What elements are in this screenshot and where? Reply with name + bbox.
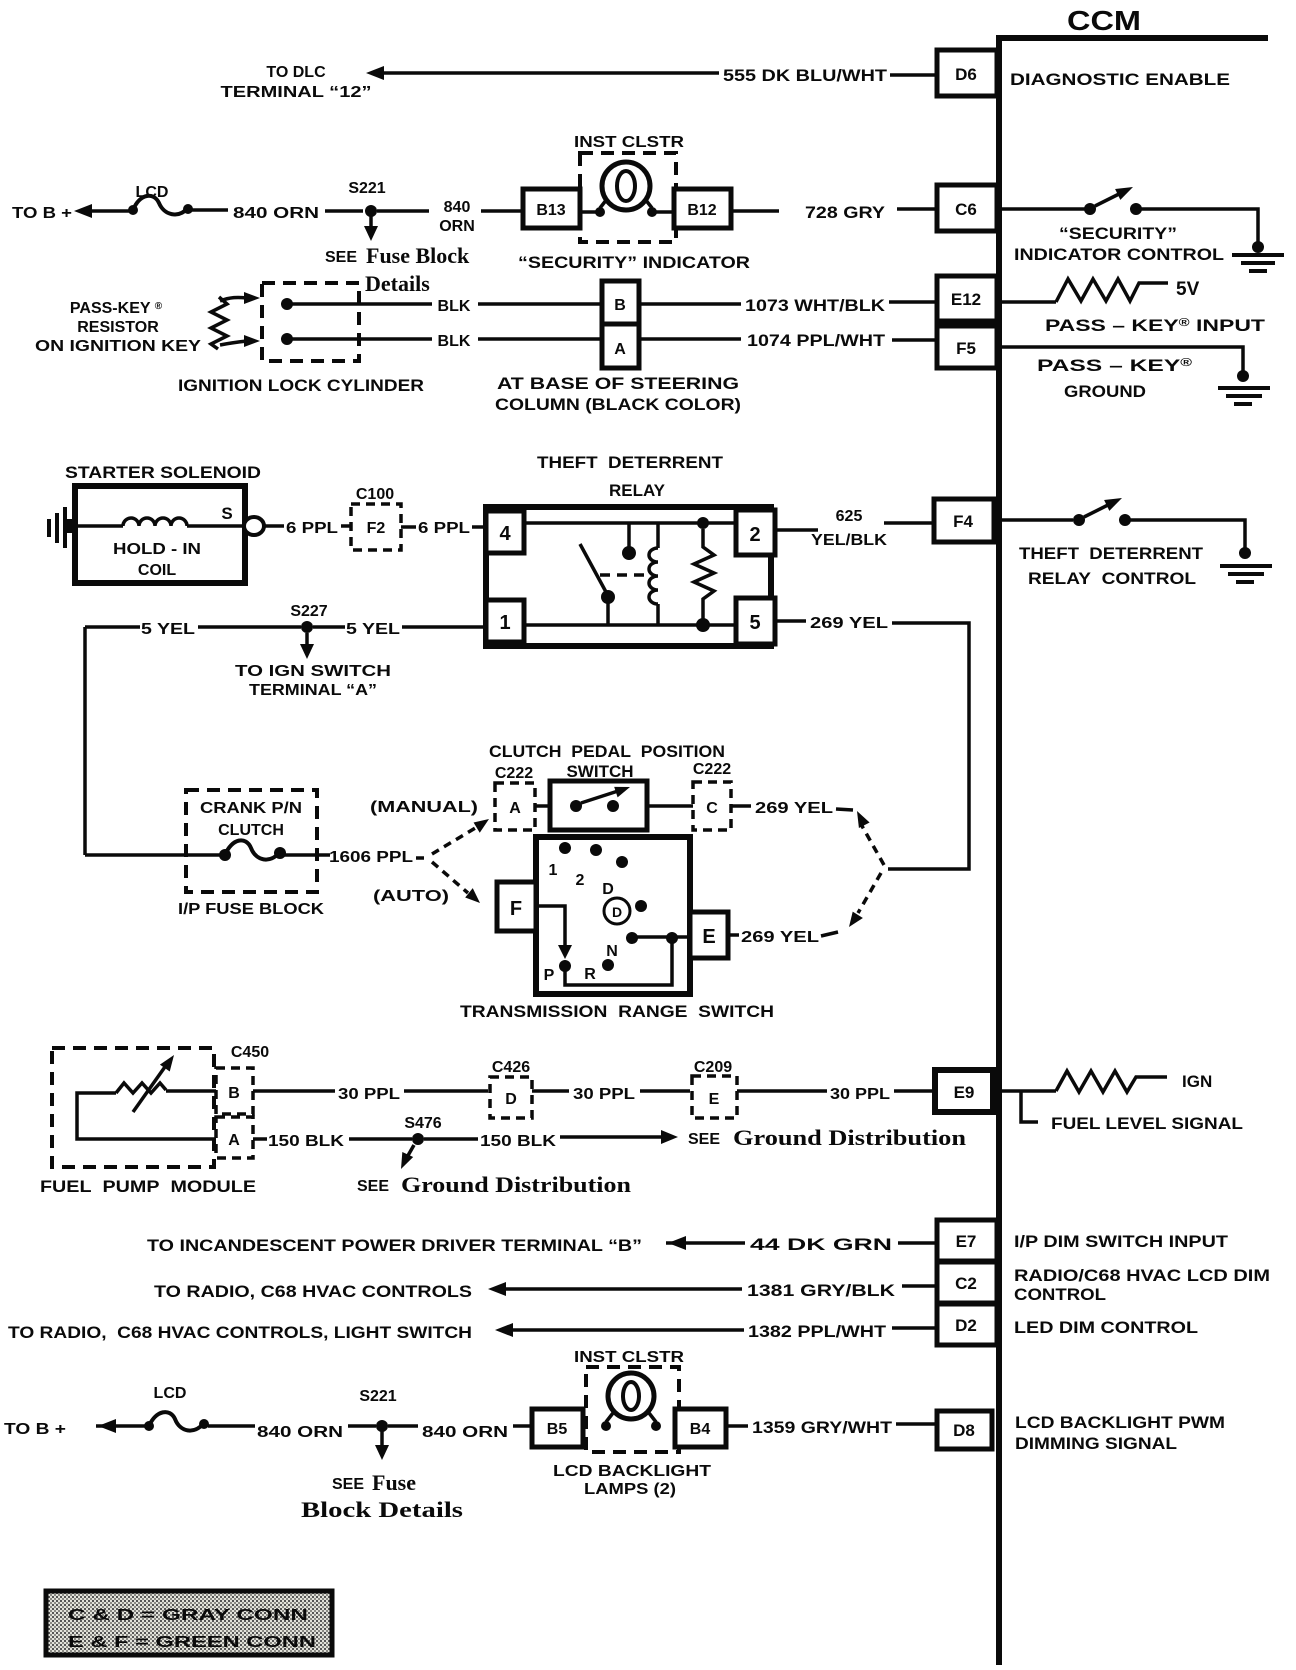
svg-text:RADIO/C68 HVAC LCD DIM: RADIO/C68 HVAC LCD DIM: [1014, 1266, 1270, 1285]
svg-text:44 DK GRN: 44 DK GRN: [750, 1235, 892, 1254]
svg-text:2: 2: [576, 872, 585, 889]
svg-text:269 YEL: 269 YEL: [741, 929, 819, 946]
svg-text:840: 840: [444, 199, 471, 216]
svg-text:B5: B5: [547, 1421, 568, 1438]
svg-text:30 PPL: 30 PPL: [573, 1086, 635, 1103]
svg-text:D6: D6: [955, 65, 977, 84]
svg-text:TO RADIO, C68 HVAC CONTROLS,: TO RADIO, C68 HVAC CONTROLS, LIGHT SWITC…: [8, 1323, 472, 1342]
svg-text:5: 5: [749, 612, 760, 634]
svg-text:DIAGNOSTIC ENABLE: DIAGNOSTIC ENABLE: [1010, 70, 1230, 89]
svg-text:CRANK P/N: CRANK P/N: [200, 800, 302, 817]
svg-text:Details: Details: [365, 271, 430, 296]
svg-text:RELAY CONTROL: RELAY CONTROL: [1028, 569, 1196, 588]
svg-text:625: 625: [836, 508, 863, 525]
svg-text:SEE: SEE: [332, 1476, 364, 1493]
svg-text:(MANUAL): (MANUAL): [370, 799, 478, 816]
svg-text:THEFT DETERRENT: THEFT DETERRENT: [1019, 544, 1204, 563]
svg-text:A: A: [228, 1132, 240, 1149]
svg-text:TO RADIO, C68 HVAC CONTROLS: TO RADIO, C68 HVAC CONTROLS: [154, 1282, 472, 1301]
svg-text:E12: E12: [951, 290, 981, 309]
svg-text:I/P FUSE BLOCK: I/P FUSE BLOCK: [178, 901, 325, 918]
svg-text:E9: E9: [954, 1083, 975, 1102]
svg-text:COIL: COIL: [138, 562, 176, 579]
svg-text:PASS – KEY®: PASS – KEY®: [1037, 356, 1192, 375]
svg-text:N: N: [606, 943, 618, 960]
svg-text:FUEL LEVEL SIGNAL: FUEL LEVEL SIGNAL: [1051, 1114, 1243, 1133]
svg-text:INDICATOR CONTROL: INDICATOR CONTROL: [1014, 245, 1224, 264]
svg-text:TO INCANDESCENT POWER DRIVER T: TO INCANDESCENT POWER DRIVER TERMINAL “B…: [147, 1236, 642, 1255]
svg-text:B12: B12: [687, 202, 716, 219]
svg-text:5V: 5V: [1176, 279, 1200, 300]
svg-text:B13: B13: [536, 202, 565, 219]
svg-text:LCD: LCD: [154, 1385, 187, 1402]
svg-text:Fuse Block: Fuse Block: [366, 243, 470, 268]
svg-text:TO B +: TO B +: [12, 205, 72, 222]
svg-text:Ground Distribution: Ground Distribution: [733, 1125, 966, 1150]
svg-text:F2: F2: [367, 520, 386, 537]
svg-text:CLUTCH: CLUTCH: [218, 822, 284, 839]
svg-text:5 YEL: 5 YEL: [346, 621, 400, 638]
svg-text:INST CLSTR: INST CLSTR: [574, 1349, 685, 1366]
svg-text:E7: E7: [956, 1232, 977, 1251]
svg-text:E: E: [702, 926, 715, 948]
svg-text:1381 GRY/BLK: 1381 GRY/BLK: [747, 1281, 896, 1300]
svg-text:ORN: ORN: [439, 218, 475, 235]
svg-text:BLK: BLK: [438, 298, 471, 315]
svg-text:C209: C209: [694, 1059, 732, 1076]
svg-text:SEE: SEE: [357, 1178, 389, 1195]
svg-text:THEFT DETERRENT: THEFT DETERRENT: [537, 453, 724, 472]
svg-text:Fuse: Fuse: [372, 1470, 416, 1495]
svg-text:C222: C222: [693, 761, 731, 778]
svg-text:Ground Distribution: Ground Distribution: [401, 1172, 631, 1197]
svg-text:TO B +: TO B +: [4, 1421, 66, 1438]
svg-text:SEE: SEE: [688, 1131, 720, 1148]
svg-text:FUEL PUMP MODULE: FUEL PUMP MODULE: [40, 1177, 256, 1196]
svg-text:F: F: [510, 898, 522, 920]
svg-text:840 ORN: 840 ORN: [233, 205, 319, 222]
svg-text:269 YEL: 269 YEL: [755, 800, 833, 817]
svg-text:C426: C426: [492, 1059, 530, 1076]
svg-text:STARTER SOLENOID: STARTER SOLENOID: [65, 463, 261, 482]
svg-text:B: B: [614, 297, 626, 314]
svg-text:(AUTO): (AUTO): [373, 888, 449, 905]
svg-text:LAMPS (2): LAMPS (2): [584, 1481, 676, 1498]
svg-text:S: S: [221, 504, 232, 523]
svg-text:CONTROL: CONTROL: [1014, 1285, 1106, 1304]
svg-text:AT BASE OF STEERING: AT BASE OF STEERING: [497, 374, 739, 393]
svg-text:E & F = GREEN CONN: E & F = GREEN CONN: [68, 1634, 316, 1651]
svg-text:150 BLK: 150 BLK: [268, 1133, 345, 1150]
svg-text:IGN: IGN: [1182, 1072, 1212, 1091]
svg-text:LCD BACKLIGHT: LCD BACKLIGHT: [553, 1463, 711, 1480]
svg-text:6 PPL: 6 PPL: [418, 520, 470, 537]
svg-text:840 ORN: 840 ORN: [257, 1424, 343, 1441]
svg-text:RELAY: RELAY: [609, 481, 666, 500]
svg-text:269 YEL: 269 YEL: [810, 615, 888, 632]
svg-text:PASS – KEY® INPUT: PASS – KEY® INPUT: [1045, 316, 1266, 335]
svg-text:728 GRY: 728 GRY: [805, 203, 886, 222]
svg-text:INST CLSTR: INST CLSTR: [574, 134, 685, 151]
svg-text:PASS-KEY ®: PASS-KEY ®: [70, 300, 163, 317]
svg-text:SEE: SEE: [325, 249, 357, 266]
svg-text:TRANSMISSION RANGE SWITCH: TRANSMISSION RANGE SWITCH: [460, 1002, 774, 1021]
svg-text:TERMINAL “12”: TERMINAL “12”: [221, 84, 372, 101]
svg-text:A: A: [509, 800, 521, 817]
svg-text:TERMINAL “A”: TERMINAL “A”: [249, 682, 377, 699]
svg-text:1359 GRY/WHT: 1359 GRY/WHT: [752, 1418, 893, 1437]
svg-text:RESISTOR: RESISTOR: [77, 319, 159, 336]
svg-text:DIMMING SIGNAL: DIMMING SIGNAL: [1015, 1434, 1177, 1453]
svg-text:S221: S221: [359, 1388, 396, 1405]
svg-text:TO DLC: TO DLC: [266, 64, 326, 81]
svg-text:C2: C2: [955, 1274, 977, 1293]
svg-text:LED DIM CONTROL: LED DIM CONTROL: [1014, 1318, 1198, 1337]
svg-text:2: 2: [749, 524, 760, 546]
svg-text:HOLD - IN: HOLD - IN: [113, 541, 201, 558]
svg-text:I/P DIM SWITCH INPUT: I/P DIM SWITCH INPUT: [1014, 1232, 1229, 1251]
svg-text:D: D: [602, 881, 614, 898]
svg-text:1074 PPL/WHT: 1074 PPL/WHT: [747, 331, 886, 350]
svg-text:C222: C222: [495, 765, 533, 782]
svg-text:C & D = GRAY CONN: C & D = GRAY CONN: [68, 1607, 308, 1624]
svg-text:Block Details: Block Details: [301, 1497, 464, 1522]
svg-text:C100: C100: [356, 486, 394, 503]
svg-text:S221: S221: [348, 180, 385, 197]
svg-text:CLUTCH PEDAL POSITION: CLUTCH PEDAL POSITION: [489, 742, 725, 761]
svg-text:S476: S476: [404, 1115, 441, 1132]
svg-text:COLUMN (BLACK COLOR): COLUMN (BLACK COLOR): [495, 395, 741, 414]
svg-text:TO IGN SWITCH: TO IGN SWITCH: [235, 663, 391, 680]
svg-text:R: R: [584, 966, 596, 983]
svg-text:4: 4: [499, 523, 511, 545]
svg-text:F5: F5: [956, 339, 976, 358]
svg-text:S227: S227: [290, 603, 327, 620]
svg-text:1: 1: [549, 862, 558, 879]
svg-text:6 PPL: 6 PPL: [286, 520, 338, 537]
svg-text:150 BLK: 150 BLK: [480, 1133, 557, 1150]
svg-text:IGNITION LOCK CYLINDER: IGNITION LOCK CYLINDER: [178, 376, 424, 395]
svg-text:BLK: BLK: [438, 333, 471, 350]
svg-text:A: A: [614, 341, 626, 358]
svg-text:C450: C450: [231, 1044, 269, 1061]
svg-text:B: B: [228, 1085, 240, 1102]
svg-text:P: P: [544, 967, 555, 984]
svg-text:LCD BACKLIGHT PWM: LCD BACKLIGHT PWM: [1015, 1413, 1225, 1432]
svg-text:SWITCH: SWITCH: [566, 762, 633, 781]
svg-text:E: E: [709, 1091, 720, 1108]
svg-text:1606 PPL: 1606 PPL: [329, 849, 413, 866]
svg-text:F4: F4: [953, 512, 973, 531]
svg-text:GROUND: GROUND: [1064, 382, 1146, 401]
svg-text:D2: D2: [955, 1316, 977, 1335]
svg-text:5 YEL: 5 YEL: [141, 621, 195, 638]
svg-text:CCM: CCM: [1067, 5, 1141, 36]
svg-text:30 PPL: 30 PPL: [830, 1086, 890, 1103]
svg-text:B4: B4: [690, 1421, 711, 1438]
svg-text:840 ORN: 840 ORN: [422, 1424, 508, 1441]
svg-text:“SECURITY” INDICATOR: “SECURITY” INDICATOR: [518, 253, 750, 272]
svg-text:555 DK BLU/WHT: 555 DK BLU/WHT: [723, 66, 888, 85]
svg-text:30 PPL: 30 PPL: [338, 1086, 400, 1103]
svg-text:LCD: LCD: [136, 184, 169, 201]
svg-text:D8: D8: [953, 1421, 975, 1440]
svg-text:D: D: [612, 904, 622, 920]
svg-text:C: C: [706, 800, 718, 817]
svg-text:1073 WHT/BLK: 1073 WHT/BLK: [745, 296, 886, 315]
svg-text:1382 PPL/WHT: 1382 PPL/WHT: [748, 1322, 887, 1341]
svg-text:1: 1: [499, 612, 510, 634]
svg-text:YEL/BLK: YEL/BLK: [811, 532, 887, 549]
svg-text:C6: C6: [955, 200, 977, 219]
svg-text:ON IGNITION KEY: ON IGNITION KEY: [35, 338, 201, 355]
svg-text:“SECURITY”: “SECURITY”: [1059, 224, 1177, 243]
svg-text:D: D: [505, 1091, 517, 1108]
